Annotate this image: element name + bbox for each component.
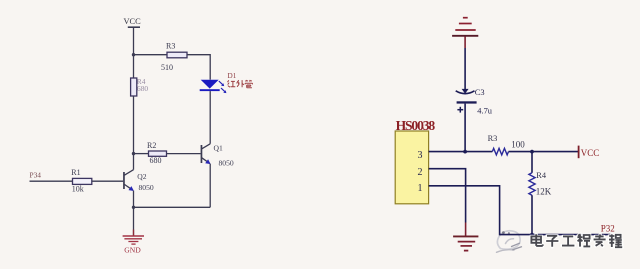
wire pin2 to ground [429, 169, 466, 223]
wire C3 down to pin3 net [464, 104, 466, 152]
svg-text:HS0038: HS0038 [396, 118, 436, 133]
svg-text:R1: R1 [71, 168, 80, 177]
resistor R3 (100, zigzag) [488, 134, 526, 155]
wire Q1 emitter down [209, 164, 211, 208]
wire VCC rail down to node A [133, 27, 135, 55]
svg-text:680: 680 [137, 84, 148, 93]
LED D1 red-infrared diode [200, 80, 227, 93]
wire R4 bottom to Q2 collector [133, 96, 135, 170]
watermark logo (faint swirl) [497, 231, 522, 253]
svg-text:10k: 10k [72, 184, 84, 193]
label 红外管 (hand-drawn glyph strokes) [228, 80, 253, 88]
wire pin3 to R3 [429, 151, 493, 153]
wire pin1 to node F and P32 [429, 186, 612, 235]
power VCC (right circuit) [579, 146, 600, 159]
svg-text:R3: R3 [166, 42, 175, 51]
wire node B to R2 left [134, 153, 149, 155]
transistor Q2 8050 [123, 170, 154, 192]
svg-text:100: 100 [511, 139, 525, 149]
wire R4 bottom down to node F [531, 195, 533, 234]
wire R1 right to Q2 base [92, 180, 123, 182]
wire R3 right to VCC [509, 151, 579, 153]
svg-text:510: 510 [161, 63, 173, 72]
svg-text:3: 3 [418, 150, 423, 161]
svg-text:D1: D1 [228, 72, 237, 80]
wire rail node A to R4 [133, 55, 135, 78]
wire bottom emitter bus [134, 206, 211, 208]
resistor R4 (680 vertical) [131, 77, 149, 96]
wire R3 right to LED top corner [187, 55, 210, 80]
resistor R1 (10k) [71, 168, 92, 193]
wire top ground stem to C3 [464, 37, 466, 90]
node B junction on rail [132, 152, 135, 155]
node F junction (R4 bottom / out) [530, 233, 534, 237]
svg-text:R4: R4 [536, 171, 547, 180]
node A junction [132, 53, 135, 56]
resistor R3 (510) [161, 42, 187, 73]
svg-text:C3: C3 [475, 88, 485, 97]
wire P34 to R1 [30, 180, 73, 182]
wire node E down to R4 [531, 152, 533, 173]
svg-text:P32: P32 [601, 223, 615, 233]
node C junction [132, 206, 135, 209]
resistor R4 (12K, vertical zigzag) [529, 171, 552, 196]
svg-text:VCC: VCC [124, 17, 142, 26]
svg-text:8050: 8050 [219, 159, 234, 168]
capacitor C3 4.7u polarized [456, 88, 493, 115]
wire Q2 emitter down to node C [133, 191, 135, 208]
ground (right circuit bottom) [453, 223, 478, 251]
wire node C down to ground [133, 207, 135, 235]
wire R2 right to Q1 base [167, 153, 201, 155]
node D junction (C3 / pin3) [463, 150, 467, 154]
wire node A to R3 left [134, 54, 168, 56]
svg-text:P34: P34 [30, 170, 42, 179]
svg-text:8050: 8050 [139, 183, 154, 192]
ground GND (left circuit) [123, 236, 144, 255]
svg-text:1: 1 [418, 183, 423, 194]
svg-text:VCC: VCC [581, 148, 600, 158]
IC U1 HS0038 receiver [395, 118, 435, 204]
svg-text:Q1: Q1 [214, 144, 223, 153]
transistor Q1 8050 [201, 144, 234, 168]
wire LED cathode down to Q1 collector [209, 91, 211, 144]
svg-text:GND: GND [124, 246, 141, 255]
power VCC (left circuit) [124, 17, 142, 27]
svg-text:2: 2 [418, 167, 423, 178]
svg-text:12K: 12K [536, 186, 552, 196]
svg-text:680: 680 [150, 156, 162, 165]
watermark text 电子工程专辑 (hand-drawn glyph strokes) [531, 234, 622, 247]
ground (top of right circuit, inverted earth) [452, 18, 478, 36]
svg-text:R3: R3 [488, 134, 498, 143]
svg-text:4.7u: 4.7u [477, 106, 492, 115]
resistor R2 (680) [147, 141, 167, 165]
svg-text:Q2: Q2 [137, 172, 146, 181]
node E junction (R4 top) [530, 150, 534, 154]
svg-text:R2: R2 [147, 141, 156, 150]
